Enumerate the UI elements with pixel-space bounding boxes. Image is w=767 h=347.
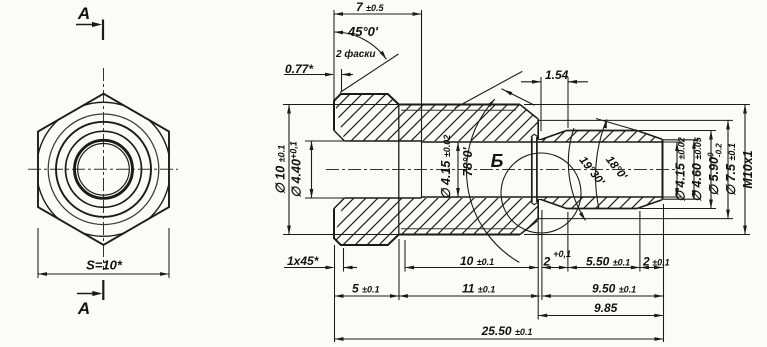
outer profile upper (head+thread) [334, 94, 520, 131]
dim 25.50: line [335, 338, 664, 340]
svg-text:9.50 ±0.1: 9.50 ±0.1 [592, 282, 636, 296]
dim 0.77: ext line [341, 69, 343, 92]
collar strip left edge [531, 137, 533, 202]
dim d4.40: ext lines [305, 140, 344, 142]
groove face lower [537, 200, 539, 221]
svg-text:1.54: 1.54 [545, 68, 569, 82]
leader 18deg chamfer extension [596, 119, 637, 131]
oblique leader A [455, 71, 522, 108]
circle d7.5 [56, 122, 151, 217]
bore d4.40 upper [345, 140, 422, 142]
svg-text:A: A [77, 299, 90, 318]
thread root line upper [401, 109, 516, 111]
hatching head+thread upper [334, 94, 538, 141]
thread end chamfer lower [520, 221, 538, 235]
ext 1x45 chamfer [343, 248, 345, 272]
dim 1.54: line+arrows [521, 81, 541, 83]
centerline horizontal (left view) [28, 168, 178, 170]
ext d4.6 lower [663, 198, 700, 200]
arc 18deg dim [596, 119, 607, 209]
ext cone end [567, 212, 569, 272]
svg-text:Б: Б [491, 151, 504, 171]
svg-text:∅ 7.5 ±0.1: ∅ 7.5 ±0.1 [724, 143, 738, 196]
ext groove face down [537, 221, 539, 320]
dim d4.60 right [693, 140, 695, 199]
ext line left face up [333, 10, 335, 100]
ext cone start down [541, 210, 543, 300]
svg-text:2 ±0.1: 2 ±0.1 [642, 255, 670, 269]
callout 45deg: arc [334, 32, 386, 59]
seal cone lower [541, 200, 567, 209]
hatching nose upper [541, 131, 662, 143]
detail circle B [501, 153, 581, 233]
callout 45deg: extension of chamfer [340, 54, 399, 93]
oblique leader B [502, 89, 535, 106]
dim 1x45: line+arrows [284, 267, 333, 269]
hatching head+thread lower [334, 198, 538, 245]
svg-text:45°0': 45°0' [347, 24, 379, 39]
head-thread junction face [398, 105, 400, 235]
arc of 78deg dimension [467, 99, 520, 262]
dim M10x1 right [744, 105, 746, 235]
dim d10: line [288, 105, 290, 235]
bore d4.15 lower [422, 196, 663, 198]
collar strip top cap [531, 134, 538, 137]
svg-text:11 ±0.1: 11 ±0.1 [462, 282, 495, 296]
svg-text:S=10*: S=10* [86, 258, 123, 273]
hex chamfer arcs at vertices [82, 102, 126, 106]
svg-text:5 ±0.1: 5 ±0.1 [352, 282, 379, 296]
svg-text:∅ 4.60 ±0.05: ∅ 4.60 ±0.05 [690, 136, 704, 202]
ext d4.15 upper [663, 141, 683, 143]
ext d4.15 lower [663, 196, 683, 198]
ext d4.6 upper [663, 139, 700, 141]
svg-text:25.50 ±0.1: 25.50 ±0.1 [481, 324, 533, 338]
outer profile lower (head+thread) [334, 209, 520, 246]
dim d4.15 mid: line [457, 142, 459, 197]
thread end chamfer upper [520, 105, 538, 119]
groove face upper [537, 119, 539, 140]
d5.9 surface lower [567, 208, 638, 210]
svg-text:10 ±0.1: 10 ±0.1 [460, 254, 494, 268]
drill step at depth 7 [421, 10, 423, 198]
dim 2+0.1: line [542, 267, 568, 269]
dim 7: line [334, 13, 422, 15]
svg-text:∅ 10 ±0.1: ∅ 10 ±0.1 [274, 145, 288, 194]
centerline vertical (left view) [103, 68, 105, 270]
tip chamfer upper [637, 131, 662, 140]
bore circle d4.5 thick [75, 140, 133, 198]
svg-text:∅ 4.15 ±0.02: ∅ 4.15 ±0.02 [439, 135, 453, 200]
dim 0.77: line+arrows [284, 74, 333, 76]
circle d5.9 [66, 131, 142, 207]
dim d4.15 right [676, 142, 678, 197]
head hex flat edge upper [334, 104, 399, 106]
svg-text:A: A [77, 4, 90, 23]
svg-text:M10x1: M10x1 [741, 150, 755, 188]
collar strip bottom cap [531, 202, 538, 205]
ext head end [398, 239, 400, 300]
svg-text:0.77*: 0.77* [285, 62, 314, 76]
svg-text:∅ 4.15 ±0.02: ∅ 4.15 ±0.02 [674, 137, 688, 202]
collar strip blank [531, 134, 538, 205]
bore d4.40 lower [345, 197, 422, 199]
right end face [662, 139, 664, 199]
ext M10 lower [524, 234, 750, 236]
ext d7.5 lower [539, 218, 733, 220]
ext right face down [663, 204, 665, 342]
ext d7.5 upper [539, 119, 733, 121]
ext d5.9 upper [639, 130, 716, 132]
section arrow bottom [102, 280, 104, 300]
ext left face down [334, 245, 336, 342]
dim 11: line [399, 295, 540, 297]
dim 2 right: line [640, 267, 663, 269]
ext thread start [404, 240, 406, 272]
section arrow top [102, 20, 104, 41]
neck line lower [538, 199, 541, 201]
dim d5.90 right [710, 131, 712, 209]
collar strip right edge [536, 137, 538, 202]
bore d4.15 upper [422, 141, 663, 143]
d5.9 surface upper [567, 130, 638, 132]
dim 5: line [335, 295, 400, 297]
ext d5.9 lower [639, 208, 716, 210]
dim 10: line [405, 267, 538, 269]
svg-text:5.50 ±0.1: 5.50 ±0.1 [586, 255, 630, 269]
dim d4.40: line [311, 141, 313, 198]
dim 9.50: line [542, 295, 663, 297]
bore entry chamfer upper [334, 131, 345, 142]
svg-text:7 ±0.5: 7 ±0.5 [356, 0, 384, 14]
dim d7.5 right [727, 120, 729, 218]
centerline side view [326, 169, 678, 171]
hex head outline (end view) [38, 94, 169, 245]
thread root line lower [401, 228, 516, 230]
bore entry chamfer lower [334, 198, 345, 209]
ext tip chamfer [639, 211, 641, 272]
dim d10: ext lines [283, 104, 333, 106]
neck line upper [538, 139, 541, 141]
hatching nose lower [541, 197, 662, 209]
tip chamfer lower [637, 200, 662, 209]
ext M10 upper [524, 104, 750, 106]
seal cone upper [541, 131, 567, 140]
ext lines S dim [37, 228, 39, 278]
svg-text:9.85: 9.85 [594, 301, 618, 315]
dim line S=10 [38, 273, 169, 275]
dim 5.50: line [568, 267, 640, 269]
arc 19deg30 dim [568, 128, 585, 221]
dim 1.54: ext lines [540, 77, 542, 131]
svg-text:2 фаски: 2 фаски [335, 48, 376, 60]
svg-text:1x45*: 1x45* [287, 254, 320, 268]
bore circle d4.15 thin [78, 144, 130, 196]
head hex flat edge lower [334, 234, 399, 236]
dim 9.85: line [538, 315, 663, 317]
circle thread root ~d8.6 [48, 114, 159, 225]
